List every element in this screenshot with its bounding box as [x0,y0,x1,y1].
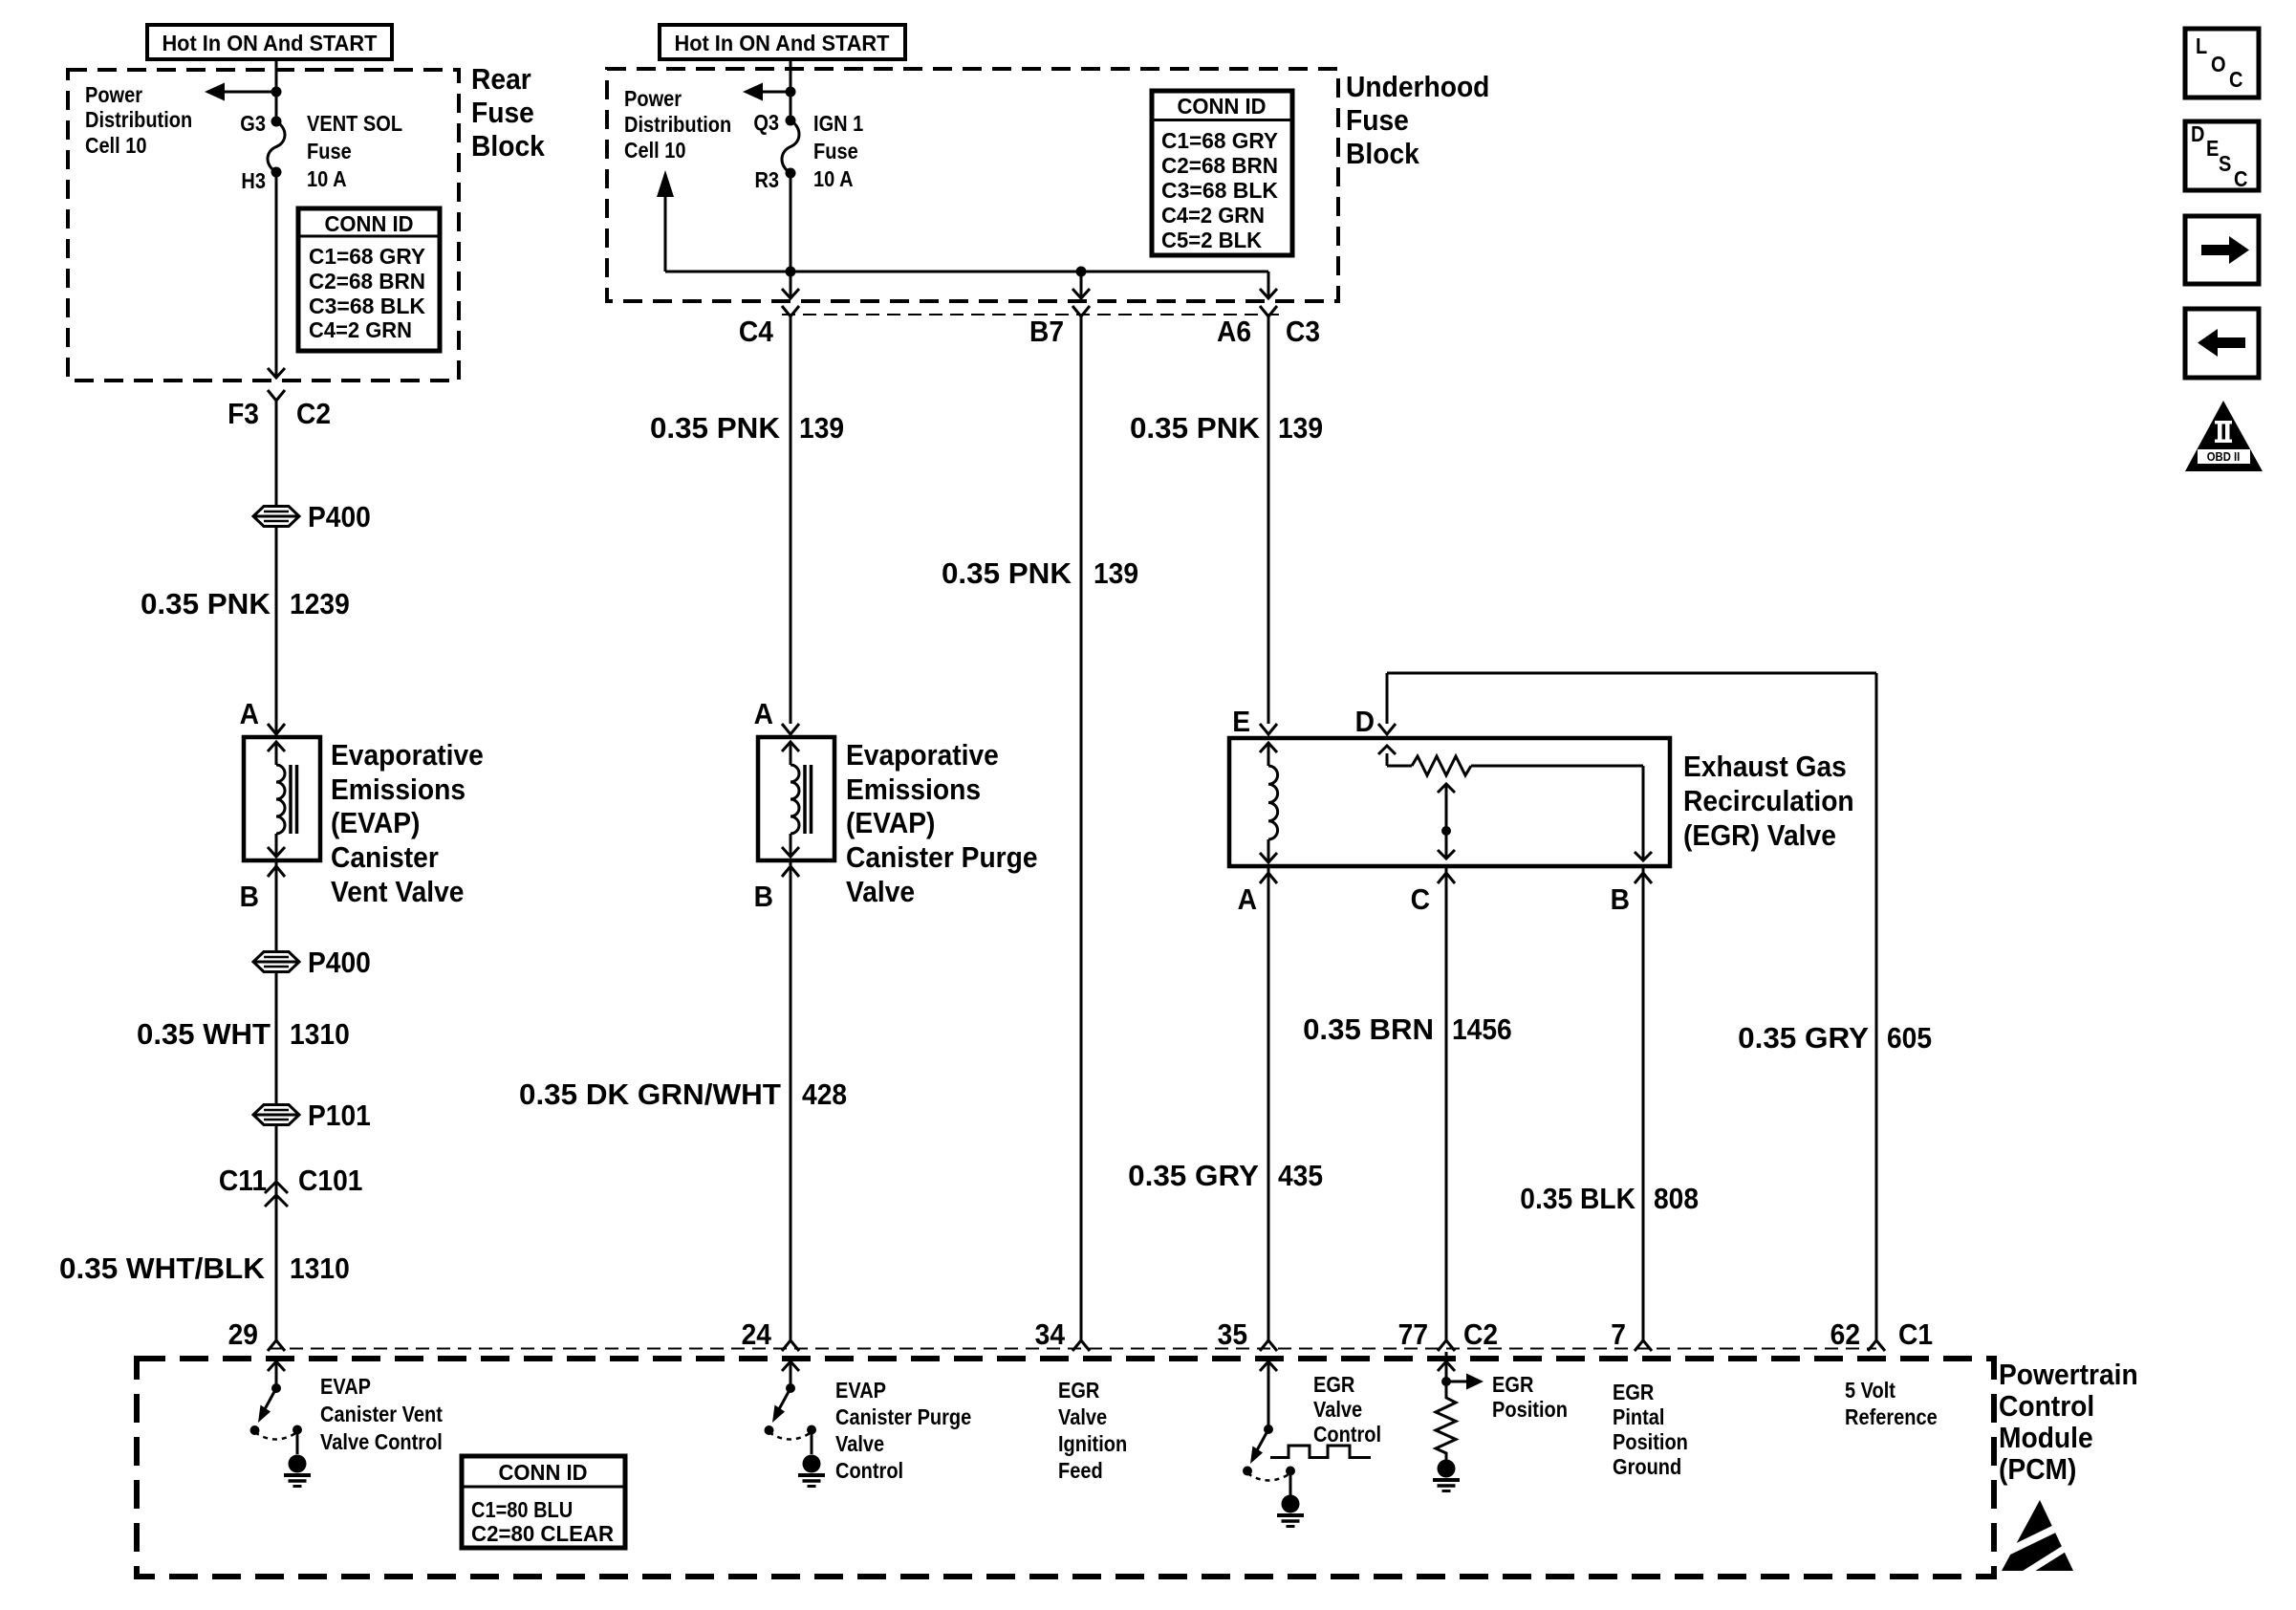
svg-text:Distribution: Distribution [85,107,192,133]
svg-text:Underhood: Underhood [1346,71,1489,104]
svg-text:C1=68 GRY: C1=68 GRY [309,244,426,270]
svg-text:(PCM): (PCM) [1999,1453,2076,1487]
svg-text:EGR: EGR [1492,1372,1534,1398]
svg-text:Valve: Valve [846,876,915,909]
svg-text:Hot In ON And START: Hot In ON And START [162,31,377,56]
svg-text:Fuse: Fuse [307,139,352,164]
svg-text:10 A: 10 A [307,166,347,192]
svg-text:A: A [240,698,259,731]
svg-text:Canister: Canister [331,841,439,875]
svg-text:7: 7 [1611,1318,1626,1352]
svg-text:C2=68 BRN: C2=68 BRN [1161,153,1278,179]
svg-text:C1: C1 [1898,1318,1933,1352]
svg-text:EVAP: EVAP [320,1374,371,1400]
svg-text:35: 35 [1218,1318,1247,1352]
svg-text:435: 435 [1278,1160,1323,1193]
svg-text:34: 34 [1035,1318,1066,1352]
svg-text:Fuse: Fuse [1346,104,1409,138]
svg-text:Valve: Valve [1313,1397,1362,1423]
svg-text:1310: 1310 [290,1018,350,1052]
svg-text:C3=68 BLK: C3=68 BLK [309,294,425,319]
svg-text:1239: 1239 [290,588,350,621]
svg-text:Distribution: Distribution [624,112,731,138]
svg-text:605: 605 [1887,1022,1932,1055]
svg-text:428: 428 [802,1078,847,1112]
svg-text:R3: R3 [754,167,779,193]
svg-text:A: A [1238,883,1257,917]
svg-text:Canister Vent: Canister Vent [320,1402,443,1427]
svg-text:0.35 BRN: 0.35 BRN [1303,1013,1434,1047]
svg-text:0.35 PNK: 0.35 PNK [650,412,781,446]
svg-text:C2=80 CLEAR: C2=80 CLEAR [471,1521,614,1547]
svg-text:Position: Position [1492,1397,1568,1423]
svg-text:Valve Control: Valve Control [320,1429,443,1455]
svg-text:EGR: EGR [1313,1372,1355,1398]
svg-text:24: 24 [742,1318,772,1352]
svg-text:Emissions: Emissions [846,773,981,807]
svg-text:0.35 PNK: 0.35 PNK [141,588,271,621]
svg-text:P400: P400 [308,946,371,980]
svg-text:O: O [2211,52,2226,77]
svg-text:EGR: EGR [1058,1378,1100,1403]
svg-text:B: B [754,881,773,914]
svg-text:Exhaust Gas: Exhaust Gas [1683,751,1847,784]
svg-text:808: 808 [1654,1183,1699,1216]
svg-text:Block: Block [1346,138,1419,171]
svg-text:(EGR) Valve: (EGR) Valve [1683,819,1836,853]
svg-text:C2: C2 [1463,1318,1498,1352]
svg-text:1456: 1456 [1452,1013,1512,1047]
svg-text:C101: C101 [298,1164,362,1198]
svg-text:Pintal: Pintal [1613,1404,1664,1430]
svg-text:Vent Valve: Vent Valve [331,876,465,909]
svg-text:C2: C2 [296,398,331,431]
svg-text:(EVAP): (EVAP) [846,807,935,840]
svg-text:E: E [2206,136,2219,162]
svg-text:C3: C3 [1286,315,1320,349]
svg-text:Canister Purge: Canister Purge [846,841,1038,875]
svg-text:29: 29 [228,1318,258,1352]
svg-text:Cell 10: Cell 10 [624,138,686,163]
svg-text:Evaporative: Evaporative [846,739,999,772]
svg-text:0.35 GRY: 0.35 GRY [1128,1160,1259,1193]
svg-text:5 Volt: 5 Volt [1845,1378,1895,1403]
svg-text:EGR: EGR [1613,1380,1655,1405]
svg-text:Power: Power [624,86,682,112]
svg-text:H3: H3 [241,168,266,194]
svg-text:Hot In ON And START: Hot In ON And START [674,31,889,56]
svg-text:Module: Module [1999,1422,2093,1455]
svg-text:S: S [2219,151,2231,177]
svg-text:1310: 1310 [290,1252,350,1286]
svg-text:C3=68 BLK: C3=68 BLK [1161,178,1278,204]
svg-text:Block: Block [471,130,545,163]
svg-text:E: E [1232,706,1250,739]
svg-text:Fuse: Fuse [471,97,534,130]
svg-text:F3: F3 [227,398,259,431]
svg-text:Ground: Ground [1613,1454,1681,1480]
svg-text:10 A: 10 A [813,166,854,192]
svg-text:Control: Control [1999,1390,2094,1424]
svg-text:77: 77 [1398,1318,1428,1352]
svg-text:139: 139 [1094,557,1138,591]
svg-text:C2=68 BRN: C2=68 BRN [309,269,425,294]
svg-text:C1=80 BLU: C1=80 BLU [471,1497,573,1523]
svg-text:Ignition: Ignition [1058,1431,1127,1457]
svg-text:0.35 BLK: 0.35 BLK [1520,1183,1635,1216]
svg-text:0.35 PNK: 0.35 PNK [942,557,1072,591]
svg-text:P101: P101 [308,1099,371,1133]
svg-text:C4: C4 [739,315,774,349]
svg-text:Valve: Valve [835,1431,884,1457]
svg-text:C1=68 GRY: C1=68 GRY [1161,128,1279,154]
svg-text:(EVAP): (EVAP) [331,807,420,840]
svg-text:B: B [1611,883,1630,917]
svg-text:Valve: Valve [1058,1404,1107,1430]
svg-text:C: C [1411,883,1430,917]
svg-text:139: 139 [799,412,844,446]
svg-text:Feed: Feed [1058,1458,1103,1484]
svg-text:Rear: Rear [471,63,531,97]
svg-text:0.35 WHT/BLK: 0.35 WHT/BLK [59,1252,266,1286]
svg-text:C5=2 BLK: C5=2 BLK [1161,228,1262,253]
svg-text:62: 62 [1830,1318,1860,1352]
svg-text:Evaporative: Evaporative [331,739,484,772]
svg-text:Fuse: Fuse [813,139,858,164]
svg-text:A: A [754,698,773,731]
svg-text:0.35 GRY: 0.35 GRY [1738,1022,1869,1055]
svg-text:CONN ID: CONN ID [1178,94,1267,120]
svg-text:Recirculation: Recirculation [1683,785,1854,818]
svg-text:CONN ID: CONN ID [325,211,414,237]
svg-text:VENT SOL: VENT SOL [307,111,402,137]
svg-text:Powertrain: Powertrain [1999,1359,2138,1392]
svg-text:Q3: Q3 [753,110,779,136]
svg-text:EVAP: EVAP [835,1378,886,1403]
svg-text:Control: Control [1313,1422,1381,1447]
svg-text:B7: B7 [1029,315,1064,349]
svg-text:C4=2 GRN: C4=2 GRN [1161,203,1265,228]
svg-text:Control: Control [835,1458,903,1484]
svg-text:B: B [240,881,259,914]
svg-text:Position: Position [1613,1429,1688,1455]
svg-text:CONN ID: CONN ID [499,1460,588,1486]
svg-text:139: 139 [1278,412,1323,446]
svg-text:C: C [2234,166,2247,192]
svg-text:IGN 1: IGN 1 [813,111,863,137]
svg-text:Emissions: Emissions [331,773,466,807]
svg-text:L: L [2196,33,2207,59]
svg-text:D: D [1355,706,1375,739]
svg-text:OBD II: OBD II [2207,449,2241,464]
svg-text:0.35 DK GRN/WHT: 0.35 DK GRN/WHT [519,1078,781,1112]
svg-text:C: C [2229,67,2242,93]
svg-text:C4=2 GRN: C4=2 GRN [309,317,412,343]
svg-text:0.35 WHT: 0.35 WHT [137,1018,271,1052]
svg-text:A6: A6 [1217,315,1251,349]
svg-text:Reference: Reference [1845,1404,1938,1430]
svg-text:Canister Purge: Canister Purge [835,1404,971,1430]
svg-text:Power: Power [85,82,143,108]
svg-text:P400: P400 [308,501,371,534]
svg-text:D: D [2191,121,2204,147]
svg-text:Cell 10: Cell 10 [85,133,147,159]
svg-text:G3: G3 [240,111,266,137]
svg-text:C11: C11 [219,1164,267,1198]
svg-text:0.35 PNK: 0.35 PNK [1130,412,1261,446]
